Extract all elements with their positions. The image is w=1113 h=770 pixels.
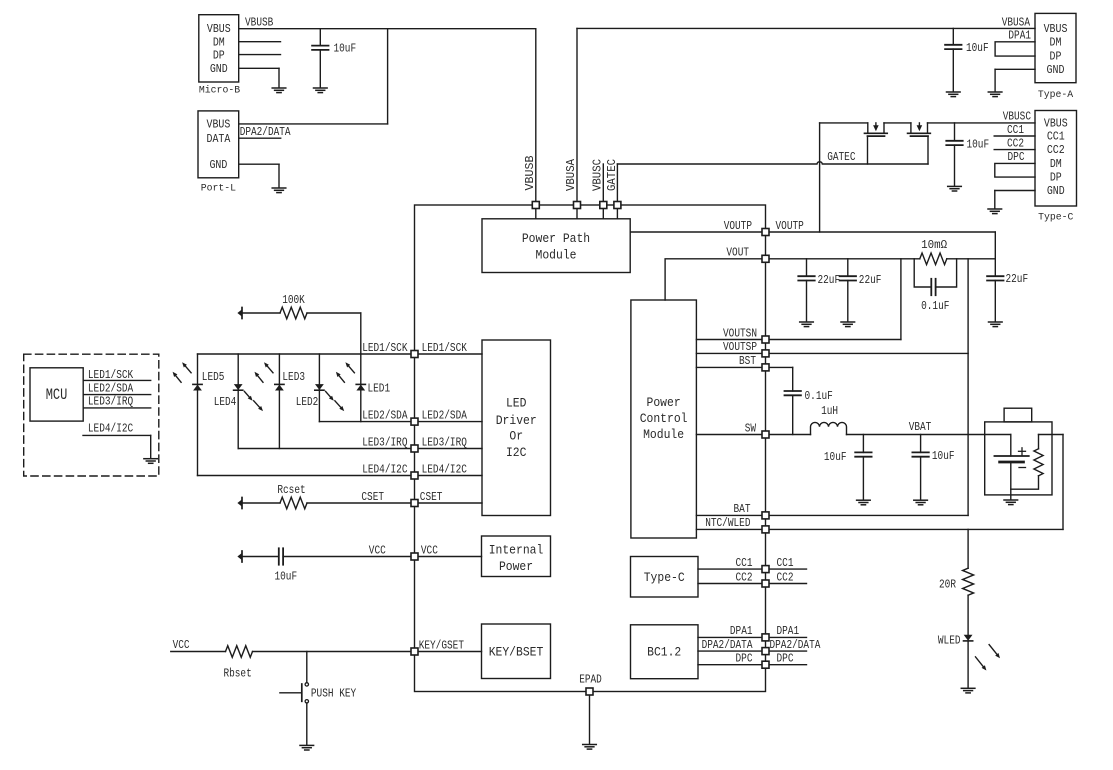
svg-text:KEY/GSET: KEY/GSET [419,638,464,652]
svg-text:Port-L: Port-L [201,183,236,194]
svg-text:CC1: CC1 [736,556,753,570]
svg-text:CC2: CC2 [1007,136,1024,150]
svg-text:Power: Power [499,559,533,574]
svg-text:0.1uF: 0.1uF [805,389,833,403]
svg-text:CC1: CC1 [1047,130,1065,144]
svg-text:LED4/I2C: LED4/I2C [88,422,133,436]
svg-text:22uF: 22uF [818,273,841,287]
svg-text:LED2/SDA: LED2/SDA [362,408,408,422]
svg-text:Micro-B: Micro-B [199,84,240,95]
svg-text:20R: 20R [939,578,956,592]
svg-text:CC2: CC2 [736,570,753,584]
svg-text:LED1/SCK: LED1/SCK [88,368,134,382]
svg-text:DM: DM [1050,35,1062,49]
svg-text:VCC: VCC [369,543,386,557]
svg-text:LED2: LED2 [296,395,319,409]
svg-text:DP: DP [1050,50,1062,64]
svg-text:Power Path: Power Path [522,231,590,246]
svg-text:LED1/SCK: LED1/SCK [422,341,468,355]
svg-text:LED: LED [506,395,527,410]
svg-text:VBUSB: VBUSB [523,156,537,191]
svg-text:GND: GND [1047,63,1065,77]
svg-text:MCU: MCU [46,386,68,404]
svg-text:LED4: LED4 [214,395,237,409]
svg-text:VBUSA: VBUSA [564,158,578,191]
svg-text:VCC: VCC [173,638,190,652]
svg-text:LED1/SCK: LED1/SCK [362,341,408,355]
svg-text:BST: BST [739,354,756,368]
svg-text:VOUTSP: VOUTSP [723,340,757,354]
svg-text:10uF: 10uF [824,450,847,464]
svg-text:DPA2/DATA: DPA2/DATA [770,638,822,652]
svg-text:100K: 100K [282,293,305,307]
svg-text:DM: DM [1050,157,1062,171]
svg-text:I2C: I2C [506,445,527,460]
svg-text:DM: DM [213,35,225,49]
svg-text:PUSH KEY: PUSH KEY [311,687,356,701]
svg-text:GND: GND [1047,184,1065,198]
svg-text:Control: Control [640,411,688,426]
svg-text:VBUS: VBUS [1044,117,1068,131]
svg-text:CSET: CSET [361,490,384,504]
svg-text:DP: DP [213,48,225,62]
svg-text:DPA1: DPA1 [1008,29,1031,43]
svg-text:DPC: DPC [1008,150,1025,164]
svg-text:VBUSB: VBUSB [245,16,273,30]
svg-text:DPC: DPC [777,652,794,666]
svg-text:Rbset: Rbset [223,666,251,680]
svg-text:LED2/SDA: LED2/SDA [88,381,134,395]
svg-text:22uF: 22uF [1006,272,1029,286]
svg-text:Rcset: Rcset [277,483,305,497]
svg-text:DPA1: DPA1 [777,624,800,638]
svg-text:Module: Module [643,427,684,442]
svg-text:10uF: 10uF [966,41,989,55]
svg-text:EPAD: EPAD [579,672,602,686]
svg-text:VOUTP: VOUTP [724,219,752,233]
svg-text:SW: SW [745,421,757,435]
svg-text:BC1.2: BC1.2 [647,644,681,659]
svg-text:VOUT: VOUT [726,246,749,260]
svg-text:NTC/WLED: NTC/WLED [705,516,750,530]
svg-text:LED4/I2C: LED4/I2C [362,462,407,476]
svg-text:VBUSC: VBUSC [591,159,605,191]
svg-text:10uF: 10uF [932,449,955,463]
svg-text:LED3/IRQ: LED3/IRQ [88,395,133,409]
svg-text:GATEC: GATEC [605,159,619,191]
svg-text:GND: GND [209,158,227,172]
svg-text:CC2: CC2 [1047,143,1065,157]
svg-text:VBAT: VBAT [909,420,932,434]
svg-text:DPA2/DATA: DPA2/DATA [240,125,292,139]
svg-text:DPA2/DATA: DPA2/DATA [702,638,754,652]
svg-text:GND: GND [210,62,228,76]
svg-text:Module: Module [536,248,577,263]
svg-text:1uH: 1uH [821,404,838,418]
svg-text:DP: DP [1050,171,1062,185]
svg-text:Internal: Internal [489,542,544,557]
svg-text:VCC: VCC [421,543,438,557]
svg-text:10uF: 10uF [275,569,298,583]
svg-text:LED1: LED1 [368,382,391,396]
svg-text:LED2/SDA: LED2/SDA [422,408,468,422]
svg-text:10uF: 10uF [967,137,990,151]
svg-text:22uF: 22uF [859,273,882,287]
svg-text:LED5: LED5 [202,370,225,384]
svg-text:DPC: DPC [736,652,753,666]
svg-text:Type-C: Type-C [644,570,685,585]
svg-text:VOUTP: VOUTP [776,219,804,233]
svg-text:VBUSC: VBUSC [1003,110,1031,124]
svg-text:WLED: WLED [938,634,961,648]
svg-text:VBUSA: VBUSA [1002,15,1031,29]
svg-text:LED3/IRQ: LED3/IRQ [422,435,467,449]
svg-text:BAT: BAT [734,502,751,516]
svg-text:10mΩ: 10mΩ [921,238,947,252]
svg-text:LED3: LED3 [282,370,305,384]
svg-text:Type-C: Type-C [1038,211,1073,222]
svg-text:Driver: Driver [496,413,537,428]
svg-text:Or: Or [509,428,523,443]
svg-text:KEY/BSET: KEY/BSET [489,644,544,659]
svg-text:VOUTSN: VOUTSN [723,326,757,340]
svg-text:CC1: CC1 [1007,123,1024,137]
svg-text:DATA: DATA [207,132,232,146]
svg-text:CC1: CC1 [777,556,794,570]
svg-text:DPA1: DPA1 [730,624,753,638]
svg-text:Type-A: Type-A [1038,89,1073,100]
svg-text:VBUS: VBUS [207,117,231,131]
svg-text:LED3/IRQ: LED3/IRQ [362,435,407,449]
svg-text:10uF: 10uF [334,42,357,56]
svg-text:0.1uF: 0.1uF [921,299,949,313]
svg-text:LED4/I2C: LED4/I2C [422,462,467,476]
svg-text:VBUS: VBUS [1044,22,1068,36]
svg-text:CC2: CC2 [777,570,794,584]
svg-text:VBUS: VBUS [207,22,231,36]
svg-text:GATEC: GATEC [827,150,855,164]
svg-text:CSET: CSET [420,490,443,504]
svg-text:Power: Power [647,395,681,410]
